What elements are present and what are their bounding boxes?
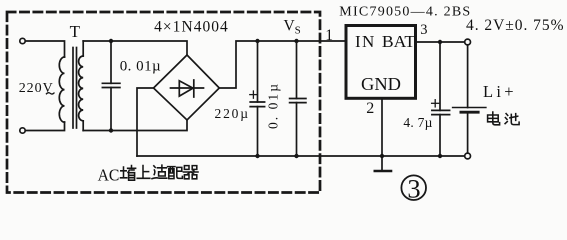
svg-text:2: 2 — [366, 100, 374, 117]
svg-text:1: 1 — [325, 27, 333, 44]
svg-text:220µ: 220µ — [215, 106, 249, 121]
svg-text:Li+: Li+ — [483, 82, 514, 101]
svg-text:IN: IN — [355, 32, 374, 51]
svg-text:0. 01µ: 0. 01µ — [120, 58, 161, 74]
svg-text:3: 3 — [420, 22, 427, 38]
svg-text:GND: GND — [361, 74, 401, 94]
svg-text:AC: AC — [98, 165, 120, 184]
svg-text:4×1N4004: 4×1N4004 — [154, 19, 228, 36]
svg-text:S: S — [295, 25, 301, 37]
svg-text:T: T — [70, 22, 81, 41]
svg-text:MIC79050—4. 2BS: MIC79050—4. 2BS — [339, 4, 470, 19]
svg-text:220V: 220V — [19, 81, 53, 96]
svg-text:BAT: BAT — [382, 32, 416, 51]
svg-text:3: 3 — [407, 173, 420, 203]
svg-text:4. 2V±0. 75%: 4. 2V±0. 75% — [466, 17, 564, 34]
svg-text:4. 7µ: 4. 7µ — [403, 115, 432, 130]
